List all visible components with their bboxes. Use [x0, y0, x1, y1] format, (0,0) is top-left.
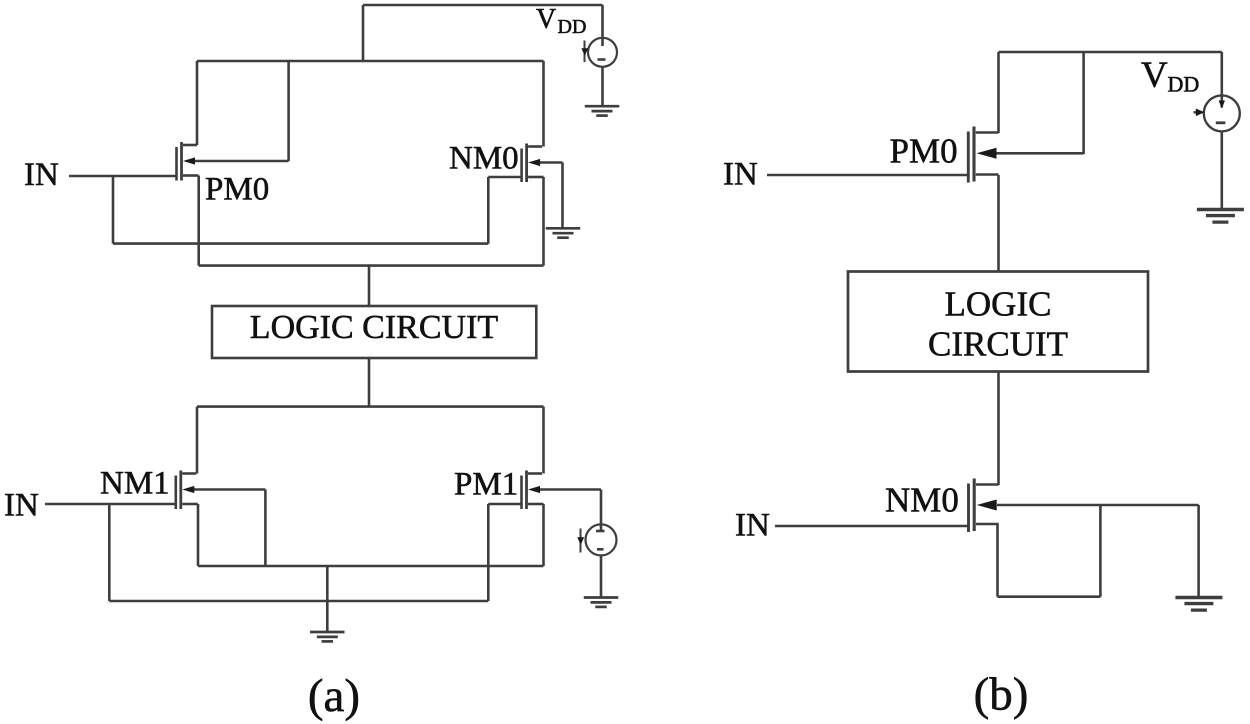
svg-text:DD: DD [1168, 72, 1200, 97]
svg-text:(b): (b) [974, 669, 1029, 721]
svg-text:DD: DD [558, 16, 587, 38]
svg-text:PM1: PM1 [454, 467, 518, 503]
svg-text:PM0: PM0 [890, 132, 958, 171]
svg-text:IN: IN [723, 157, 758, 193]
svg-text:IN: IN [4, 488, 39, 524]
svg-text:LOGIC: LOGIC [945, 285, 1052, 324]
svg-text:LOGIC CIRCUIT: LOGIC CIRCUIT [250, 309, 499, 346]
svg-text:IN: IN [24, 157, 59, 193]
svg-text:V: V [536, 4, 556, 35]
svg-text:NM0: NM0 [449, 141, 519, 177]
svg-text:NM1: NM1 [100, 466, 170, 502]
svg-text:NM0: NM0 [885, 481, 959, 520]
svg-text:IN: IN [735, 508, 770, 544]
svg-text:(a): (a) [308, 670, 360, 722]
svg-text:PM0: PM0 [205, 172, 269, 208]
svg-text:CIRCUIT: CIRCUIT [928, 325, 1068, 364]
svg-text:V: V [1141, 55, 1168, 96]
